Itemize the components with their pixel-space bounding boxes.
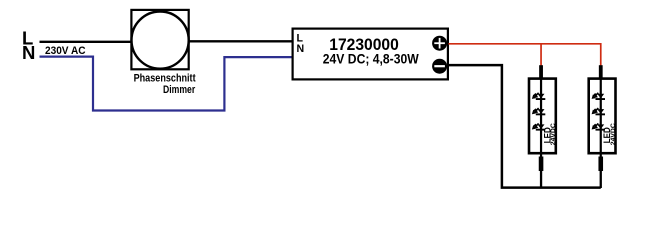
LED D3	[532, 123, 545, 130]
wire + (red) to LED strips	[449, 44, 601, 66]
label LED (strip 1)	[542, 127, 552, 143]
power supply U1 box	[293, 29, 448, 80]
svg-text:230V AC: 230V AC	[45, 45, 86, 57]
wire dimmer to power supply	[189, 40, 292, 42]
LED D1	[532, 93, 545, 100]
LED D6	[592, 123, 605, 130]
svg-text:Phasenschnitt: Phasenschnitt	[134, 72, 196, 84]
node L	[22, 28, 33, 49]
label 17230000	[329, 35, 399, 54]
power supply pin L	[297, 33, 304, 45]
node N	[22, 42, 35, 63]
svg-text:N: N	[22, 42, 35, 63]
label Phasenschnitt Dimmer	[134, 72, 196, 95]
terminal +	[432, 36, 447, 51]
LED strip 1 lead top	[539, 65, 543, 79]
power supply pin N	[297, 43, 305, 55]
LED strip 1 internal wire	[540, 79, 542, 153]
label 24V DC; 4,8-30W	[323, 51, 419, 66]
LED D2	[532, 108, 545, 115]
LED D4	[592, 93, 605, 100]
label LED (strip 2)	[602, 127, 612, 143]
LED strip 2 box	[589, 79, 616, 154]
label 24VDC (strip 2)	[610, 123, 617, 145]
svg-text:24V DC; 4,8-30W: 24V DC; 4,8-30W	[323, 51, 419, 66]
svg-text:24VDC: 24VDC	[550, 123, 557, 145]
dimmer box	[131, 10, 188, 69]
terminal -	[432, 59, 447, 74]
label 24VDC (strip 1)	[550, 123, 557, 145]
svg-text:24VDC: 24VDC	[610, 123, 617, 145]
LED strip 2 lead bottom	[600, 153, 602, 188]
LED D5	[592, 108, 605, 115]
wire N (blue) from N to power supply	[40, 57, 293, 111]
svg-text:N: N	[297, 43, 305, 55]
LED strip 1 lead bottom	[540, 153, 542, 188]
label 230V AC	[45, 45, 86, 57]
LED strip 1 box	[529, 79, 556, 154]
wire L to dimmer	[40, 41, 132, 43]
LED strip 2 internal wire	[600, 79, 602, 153]
LED strip 2 lead top	[599, 65, 603, 79]
wire - (black) to bottom bus	[449, 65, 601, 188]
svg-text:Dimmer: Dimmer	[163, 84, 196, 96]
